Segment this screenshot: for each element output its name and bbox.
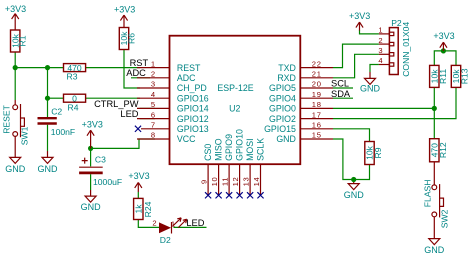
svg-text:ADC: ADC — [177, 73, 196, 83]
svg-text:ADC: ADC — [126, 68, 146, 78]
IC U2 ESP-12E box — [170, 36, 301, 165]
U2 pin 15 GND — [276, 131, 333, 145]
U2 pin 5 GPIO14 — [137, 100, 209, 114]
ground GND1 (below SW1) — [5, 157, 26, 174]
wire R24 bottom to LED D2 anode — [138, 220, 159, 228]
U2 pin 10 MISO with no-connect — [210, 138, 224, 198]
svg-text:12: 12 — [231, 177, 240, 187]
svg-text:1: 1 — [151, 59, 156, 68]
U2 pin 12 GPIO10 with no-connect — [231, 129, 245, 198]
resistor R9 10k — [365, 142, 384, 165]
svg-text:100nF: 100nF — [51, 127, 75, 137]
U2 pin 16 GPIO15 — [264, 121, 333, 135]
svg-text:9: 9 — [200, 179, 209, 184]
wire R9 bottom to J7 — [354, 165, 370, 180]
power +3V3 PWR3 (above J4 / C3) — [82, 120, 103, 149]
capacitor C2 100nF — [38, 107, 76, 138]
ground GND6 (below SW2) — [424, 239, 445, 255]
svg-text:2: 2 — [378, 36, 383, 45]
power +3V3 PWR4 (above R24) — [128, 171, 149, 192]
svg-text:LED: LED — [120, 109, 138, 119]
wire J4 down to C3 — [90, 148, 92, 166]
svg-text:+3V3: +3V3 — [5, 4, 26, 14]
svg-text:R12: R12 — [438, 142, 448, 158]
wire GND pin 15 to J7 — [333, 139, 354, 180]
resistor R11 10k — [429, 65, 448, 87]
svg-text:2: 2 — [151, 70, 156, 79]
wire RXD pin 21 to P2 pin 3 — [333, 54, 379, 78]
svg-text:TXD: TXD — [278, 63, 296, 73]
svg-text:GPIO0: GPIO0 — [269, 104, 296, 114]
svg-text:GND: GND — [81, 202, 102, 212]
capacitor C3 1000uF polarized — [79, 154, 122, 187]
wire SW2 bottom to GND — [433, 217, 435, 239]
wire VCC from J4 up to IC pin 8 — [91, 139, 155, 148]
svg-text:ESP-12E: ESP-12E — [217, 83, 253, 93]
svg-text:VCC: VCC — [177, 134, 196, 144]
U2 pin 2 ADC — [137, 70, 196, 84]
power +3V3 PWR6 (above R11 R13) — [433, 31, 454, 51]
svg-text:GPIO12: GPIO12 — [177, 114, 209, 124]
svg-text:GND: GND — [5, 164, 26, 174]
svg-text:LED: LED — [186, 218, 204, 228]
U2 pin 20 GPIO5 — [269, 80, 333, 94]
wire CTRL_PW stub pin 5 — [140, 107, 156, 109]
power +3V3 PWR1 (above R1) — [5, 4, 26, 30]
wire J3 to R4 — [48, 97, 64, 99]
svg-text:20: 20 — [312, 80, 322, 89]
P2 pin 4 — [378, 56, 393, 66]
svg-text:U2: U2 — [229, 104, 240, 114]
svg-text:CTRL_PW: CTRL_PW — [94, 99, 139, 109]
resistor R12 470 — [429, 139, 448, 162]
svg-text:3: 3 — [151, 80, 156, 89]
wire SW1 bottom to GND — [14, 136, 16, 157]
wire GPIO15 pin 16 to R9 — [333, 129, 370, 142]
svg-text:R1: R1 — [18, 35, 28, 46]
svg-text:4: 4 — [378, 56, 383, 65]
svg-text:2: 2 — [152, 219, 157, 228]
U2 pin 4 GPIO16 — [137, 90, 209, 104]
svg-text:R3: R3 — [67, 71, 78, 81]
svg-text:MOSI: MOSI — [245, 138, 255, 160]
wire +3V3 to P2 pin 1 — [360, 30, 379, 34]
switch SW1 RESET — [1, 104, 29, 145]
svg-text:GND: GND — [38, 164, 59, 174]
svg-text:21: 21 — [312, 70, 322, 79]
U2 pin 8 VCC — [137, 131, 196, 145]
wire P2 pin 4 to GND — [370, 65, 379, 73]
wire R1 to J1 and across to R3 and down to SW1 — [15, 52, 63, 105]
wire C3 bottom to GND — [90, 174, 92, 190]
U2 pin 13 MOSI with no-connect — [242, 138, 256, 198]
resistor R24 1k — [133, 198, 152, 219]
svg-text:GPIO13: GPIO13 — [177, 124, 209, 134]
svg-text:CONN_01X04: CONN_01X04 — [401, 22, 411, 77]
svg-text:GPIO16: GPIO16 — [177, 93, 209, 103]
svg-text:16: 16 — [312, 121, 322, 130]
svg-text:GPIO10: GPIO10 — [235, 129, 245, 161]
svg-text:R9: R9 — [373, 147, 383, 158]
svg-text:+3V3: +3V3 — [114, 5, 135, 15]
U2 pin 14 SCLK with no-connect — [252, 138, 266, 199]
wire R4 right lead to IC pin 4 — [86, 97, 140, 99]
svg-text:SW1: SW1 — [19, 126, 29, 145]
U2 pin 22 TXD — [278, 59, 333, 73]
svg-text:GPIO4: GPIO4 — [269, 93, 296, 103]
svg-text:5: 5 — [151, 100, 156, 109]
svg-text:GND: GND — [276, 134, 296, 144]
svg-text:1000uF: 1000uF — [93, 177, 122, 187]
svg-text:15: 15 — [312, 131, 322, 140]
svg-text:GND: GND — [344, 190, 365, 200]
junction J7 — [351, 177, 356, 182]
svg-text:19: 19 — [312, 90, 322, 99]
svg-text:GPIO14: GPIO14 — [177, 104, 209, 114]
wire +3V3 to R24 — [137, 192, 139, 198]
svg-text:GPIO9: GPIO9 — [224, 134, 234, 161]
resistor R6 10k — [119, 28, 136, 50]
wire R6 down to IC pin 3 — [124, 50, 140, 89]
P2 pin 3 — [378, 46, 393, 56]
wire GPIO2 pin 17 to R13 — [333, 87, 456, 118]
wire +3V3 J5 to R11 and R13 tops — [434, 51, 456, 66]
wire J3 down to C2 — [47, 98, 49, 117]
svg-text:CH_PD: CH_PD — [177, 83, 207, 93]
wire GPIO0 pin 18 to J6 — [333, 107, 434, 109]
U2 pin 11 GPIO9 with no-connect — [221, 134, 235, 198]
junction J1 — [13, 65, 18, 70]
svg-text:CS0: CS0 — [203, 144, 213, 161]
ground GND5 (below J7) — [344, 184, 365, 200]
U2 pin 19 GPIO4 — [269, 90, 333, 104]
ground GND4 (below P2 pin 4) — [360, 78, 381, 93]
ground GND2 (below C2) — [38, 157, 59, 174]
U2 pin 18 GPIO0 — [269, 100, 333, 114]
U2 pin 1 REST — [137, 59, 201, 73]
svg-text:+3V3: +3V3 — [433, 31, 454, 41]
wire R3 right lead to IC pin 1 — [86, 67, 140, 69]
svg-text:SCL: SCL — [331, 79, 349, 89]
junction J6 — [432, 106, 437, 111]
wire R12 bottom to SW2 — [433, 162, 435, 185]
svg-text:GPIO2: GPIO2 — [269, 114, 296, 124]
wire R11 bottom to J6 — [433, 87, 435, 108]
svg-text:GND: GND — [360, 84, 381, 94]
wire D2 cathode to LED label — [174, 226, 207, 228]
wire ADC label stub pin 2 — [131, 77, 150, 79]
wire LED stub pin 6 — [140, 118, 156, 120]
svg-text:FLASH: FLASH — [423, 179, 433, 207]
svg-text:17: 17 — [312, 110, 322, 119]
wire J6 down to R12 — [433, 108, 435, 138]
power +3V3 PWR2 (above R6) — [114, 5, 135, 28]
svg-text:SDA: SDA — [331, 89, 351, 99]
svg-text:C2: C2 — [51, 107, 62, 117]
junction J5 — [441, 48, 446, 53]
LED D2 — [152, 218, 186, 245]
resistor R3 470 — [64, 63, 86, 82]
svg-text:D2: D2 — [160, 235, 171, 245]
resistor R13 10k — [451, 65, 470, 87]
svg-text:+3V3: +3V3 — [128, 171, 149, 181]
svg-text:MISO: MISO — [214, 138, 224, 161]
svg-text:R11: R11 — [438, 69, 448, 84]
svg-text:R13: R13 — [460, 68, 470, 84]
svg-text:13: 13 — [242, 177, 251, 187]
power +3V3 PWR5 (at P2 pin 1) — [349, 11, 370, 31]
svg-text:SCLK: SCLK — [256, 138, 266, 161]
svg-text:RESET: RESET — [1, 104, 11, 133]
svg-text:SW2: SW2 — [439, 209, 449, 228]
wire C2 bottom to GND — [47, 125, 49, 151]
junction J4 — [88, 146, 93, 151]
svg-text:R6: R6 — [126, 33, 136, 44]
wire SDA stub pin 19 — [333, 97, 353, 99]
ground GND3 (below C3) — [81, 196, 102, 212]
U2 pin 17 GPIO2 — [269, 110, 333, 124]
U2 pin 21 RXD — [277, 70, 333, 84]
svg-text:R4: R4 — [68, 103, 79, 113]
resistor R1 10k — [10, 30, 27, 52]
svg-text:6: 6 — [151, 110, 156, 119]
svg-text:REST: REST — [177, 63, 201, 73]
U2 pin 9 CS0 with no-connect — [200, 144, 214, 199]
P2 pin 2 — [378, 36, 393, 46]
svg-text:GND: GND — [424, 245, 445, 255]
U2 pin 6 GPIO12 — [137, 110, 209, 124]
svg-text:+3V3: +3V3 — [82, 120, 103, 130]
junction J2 — [45, 65, 50, 70]
svg-text:1: 1 — [171, 219, 176, 228]
wire J7 to GND symbol — [353, 180, 355, 184]
svg-text:11: 11 — [221, 177, 230, 186]
wire TXD pin 22 to P2 pin 2 — [333, 44, 379, 68]
svg-text:C3: C3 — [95, 154, 106, 164]
svg-text:R24: R24 — [143, 201, 153, 217]
svg-text:7: 7 — [151, 121, 156, 130]
U2 pin 7 GPIO13 with no-connect — [135, 121, 209, 135]
svg-text:22: 22 — [312, 59, 322, 68]
svg-text:18: 18 — [312, 100, 322, 109]
junction J3 — [45, 96, 50, 101]
resistor R4 0 — [64, 93, 86, 112]
svg-text:4: 4 — [151, 90, 156, 99]
svg-text:3: 3 — [378, 46, 383, 55]
svg-text:1: 1 — [378, 26, 383, 35]
switch SW2 FLASH — [423, 179, 450, 228]
svg-text:8: 8 — [151, 131, 156, 140]
connector P2 CONN_01X04 — [389, 18, 410, 77]
svg-text:+3V3: +3V3 — [349, 11, 370, 21]
svg-text:10: 10 — [210, 177, 219, 187]
wire J2 down to J3 — [47, 68, 49, 99]
svg-text:GPIO15: GPIO15 — [264, 124, 296, 134]
P2 pin 1 — [378, 26, 393, 36]
svg-text:14: 14 — [252, 177, 261, 187]
wire SCL stub pin 20 — [333, 87, 353, 89]
svg-text:RXD: RXD — [277, 73, 296, 83]
svg-text:RST: RST — [130, 58, 149, 68]
U2 pin 3 CH_PD — [137, 80, 207, 94]
svg-text:GPIO5: GPIO5 — [269, 83, 296, 93]
